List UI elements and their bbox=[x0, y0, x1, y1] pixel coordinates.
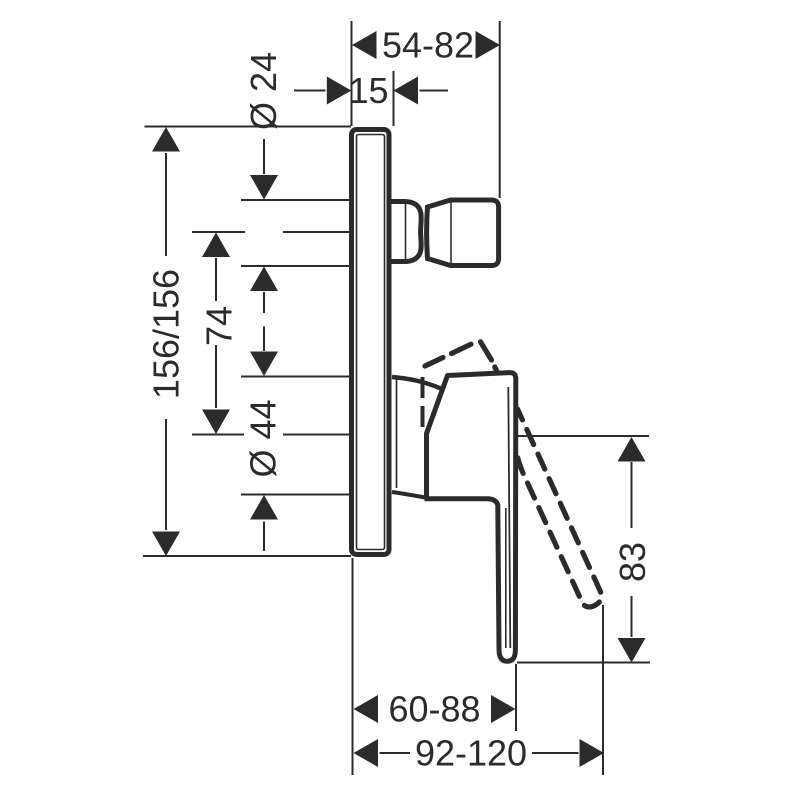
svg-text:74: 74 bbox=[199, 306, 240, 346]
extension line V5 lever tip bbox=[515, 664, 517, 731]
spout sleeve and nut bbox=[427, 200, 499, 266]
hidden edge dashed bbox=[421, 377, 425, 429]
dimension line 83 bbox=[631, 462, 633, 637]
svg-text:Ø 24: Ø 24 bbox=[243, 52, 284, 130]
extension line handle bottom bbox=[241, 494, 349, 496]
extension line V4 bottom left bbox=[352, 558, 354, 775]
arrowhead diam24 top bbox=[250, 175, 278, 200]
arrowhead diam44 bottom bbox=[250, 495, 278, 520]
extension line V3 right of 15 bbox=[393, 71, 395, 126]
dashed lever swung position right edge bbox=[518, 409, 602, 607]
svg-text:156/156: 156/156 bbox=[146, 269, 187, 399]
dimension line 156/156 bbox=[165, 153, 167, 530]
extension line spout top bbox=[241, 199, 349, 201]
arrowhead 74 top bbox=[202, 233, 230, 258]
extension line handle top bbox=[241, 376, 349, 378]
arrowhead 15 right bbox=[394, 77, 419, 105]
spout olive inner line bbox=[405, 204, 407, 259]
arrowhead 54-82 right bbox=[476, 31, 501, 59]
svg-text:60-88: 60-88 bbox=[388, 689, 480, 730]
arrowhead 15 left bbox=[327, 77, 352, 105]
centerline spout bbox=[192, 231, 349, 233]
arrowhead 156 bottom bbox=[152, 532, 180, 557]
extension line 83 top bbox=[508, 435, 649, 437]
arrowhead diam44 top bbox=[250, 352, 278, 377]
centerline handle bbox=[192, 434, 349, 436]
extension line V6 dashed lever tip bbox=[602, 605, 604, 775]
svg-text:83: 83 bbox=[612, 542, 653, 582]
extension line V2 right of 54-82 bbox=[499, 21, 501, 198]
arrowhead 60-88 left bbox=[354, 695, 379, 723]
extension line V1 left of 54-82 bbox=[351, 21, 353, 126]
leader lines 15 bbox=[294, 90, 448, 92]
dimension line 92-120 stubs bbox=[380, 752, 579, 754]
extension line plate top bbox=[145, 126, 352, 128]
arrowhead 92-120 left bbox=[354, 739, 379, 767]
spout olive bbox=[391, 202, 421, 262]
handle bottom edge and lever bbox=[425, 499, 516, 662]
handle escutcheon bottom profile bbox=[392, 492, 425, 498]
svg-text:54-82: 54-82 bbox=[382, 25, 474, 66]
arrowhead 83 bottom bbox=[618, 638, 646, 663]
dimension line 74 bbox=[215, 258, 217, 408]
lever inner line bbox=[508, 387, 510, 648]
arrowhead 54-82 left bbox=[352, 31, 377, 59]
arrowhead 83 top bbox=[618, 437, 646, 462]
arrowhead diam24 bottom bbox=[250, 267, 278, 292]
svg-text:15: 15 bbox=[348, 70, 388, 111]
dashed handle top edge raised bbox=[425, 344, 471, 366]
arrowhead 92-120 right bbox=[580, 739, 605, 767]
spout nut inner line bbox=[450, 201, 452, 265]
handle escutcheon top profile bbox=[392, 377, 443, 390]
svg-text:92-120: 92-120 bbox=[415, 733, 527, 774]
svg-text:Ø 44: Ø 44 bbox=[243, 399, 284, 477]
extension line spout bottom bbox=[241, 265, 349, 267]
extension line 83 bottom bbox=[517, 662, 650, 664]
extension line plate bottom bbox=[143, 555, 351, 557]
handle body outline bbox=[427, 373, 516, 650]
lever inner line 2 bbox=[505, 508, 507, 648]
arrowhead 60-88 right bbox=[491, 695, 516, 723]
arrowhead 74 bottom bbox=[202, 410, 230, 435]
dimension leader line diameters bbox=[263, 139, 265, 551]
escutcheon plate inner contour bbox=[357, 135, 385, 550]
dashed handle corner raised bbox=[481, 342, 498, 373]
handle body and lever silhouette bbox=[425, 373, 516, 662]
escutcheon plate outer bbox=[352, 130, 390, 555]
handle escutcheon back rim bbox=[396, 379, 398, 488]
arrowhead 156 top bbox=[152, 127, 180, 152]
